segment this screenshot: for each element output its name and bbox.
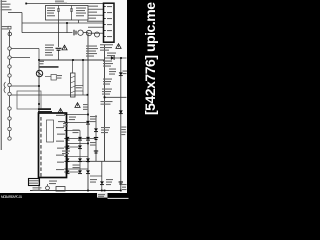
svg-text:[542x776] upic.me: [542x776] upic.me (142, 2, 158, 115)
svg-text:MCB AREA PC-01: MCB AREA PC-01 (1, 195, 22, 199)
